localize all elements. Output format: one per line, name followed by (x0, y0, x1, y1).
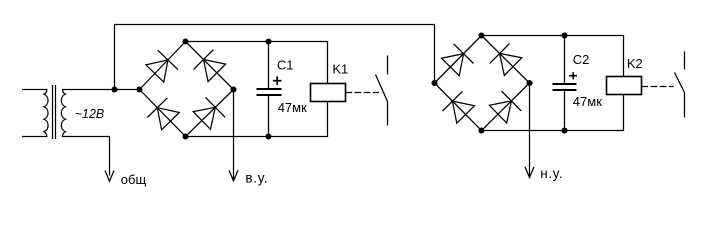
svg-text:в.у.: в.у. (245, 171, 268, 186)
svg-text:47мк: 47мк (573, 94, 602, 109)
svg-text:47мк: 47мк (278, 100, 307, 115)
svg-text:C1: C1 (277, 58, 294, 73)
svg-text:K1: K1 (332, 61, 348, 76)
svg-text:н.у.: н.у. (540, 166, 563, 181)
svg-text:C2: C2 (573, 52, 590, 67)
svg-text:~12В: ~12В (75, 107, 105, 121)
svg-text:K2: K2 (627, 56, 643, 71)
svg-text:общ: общ (121, 172, 147, 187)
